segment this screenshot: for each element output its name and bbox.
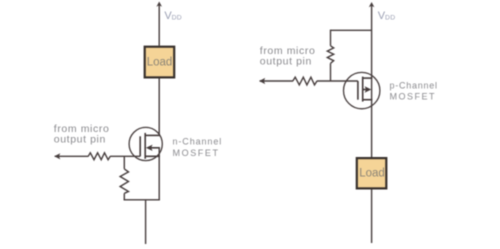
svg-text:output pin: output pin — [260, 56, 312, 68]
Q1 channel bar — [144, 133, 146, 159]
wire source output drop — [145, 200, 147, 244]
wire Q1 body/source join down to bottom junction — [158, 148, 160, 200]
VDD rail arrow (left) — [156, 2, 162, 7]
resistor R3 (gate pullup, vertical) — [327, 46, 333, 64]
wire gate lead (right) — [260, 80, 293, 82]
wire top branch to pullup (right) — [331, 29, 372, 31]
arrowhead to micro pin (right) — [259, 78, 265, 84]
svg-text:Load: Load — [147, 56, 173, 68]
svg-text:MOSFET: MOSFET — [390, 92, 437, 102]
Q2 channel bar — [362, 77, 364, 102]
load box (right) — [357, 158, 387, 188]
svg-text:MOSFET: MOSFET — [173, 148, 220, 158]
Q1 source stub — [145, 155, 160, 157]
load box (left) — [145, 47, 175, 78]
transistor Q2 p-Channel MOSFET body circle — [344, 72, 380, 108]
svg-text:n-Channel: n-Channel — [173, 137, 223, 147]
svg-text:DD: DD — [385, 15, 395, 22]
wire junction to pulldown resistor (left) — [123, 156, 125, 169]
wire pullup top lead — [330, 30, 332, 46]
arrowhead to micro pin (left) — [54, 153, 60, 159]
svg-text:p-Channel: p-Channel — [390, 80, 438, 90]
VDD rail arrow (right) — [369, 2, 375, 7]
Q1 gate plate — [139, 136, 141, 156]
svg-text:Load: Load — [359, 168, 385, 180]
wire VDD rail down through MOSFET to Load (right) — [371, 5, 373, 157]
wire pullup bottom lead to gate wire — [330, 63, 332, 81]
wire gate lead (left) — [55, 155, 89, 157]
wire VDD rail top to Load (left) — [158, 5, 160, 46]
resistor R2 (gate pulldown, vertical) — [120, 169, 128, 193]
resistor R4 (series gate, horizontal) — [293, 77, 317, 85]
Q2 source stub (top) — [363, 77, 373, 79]
wire R2 bottom lead — [123, 193, 125, 200]
Q2 drain stub (bottom) — [363, 99, 373, 101]
transistor Q1 n-Channel MOSFET body circle — [129, 127, 162, 160]
wire Load to ground stub (right) — [371, 190, 373, 244]
resistor R1 (series gate, horizontal) — [88, 153, 110, 160]
Q1 drain stub — [145, 134, 160, 136]
svg-text:output pin: output pin — [54, 133, 106, 145]
Q2 gate plate (connects at top to gate wire) — [357, 81, 359, 100]
Q2 body arrow stub (points right, p-channel) — [363, 89, 367, 91]
wire Load to MOSFET drain (left) — [158, 79, 160, 136]
wire bottom horizontal (source to R2) — [124, 199, 160, 201]
Q1 body arrow stub (points left, n-channel) — [151, 147, 160, 149]
svg-text:DD: DD — [172, 14, 182, 21]
